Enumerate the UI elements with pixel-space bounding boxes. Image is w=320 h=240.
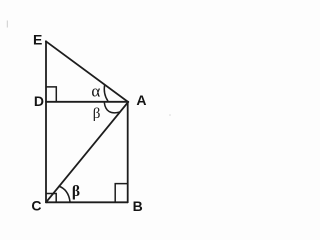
right-angle mark at C	[46, 194, 56, 203]
wire AB (right vertical)	[127, 102, 129, 202]
angle arc at C (beta)	[59, 186, 71, 202]
svg-text:D: D	[34, 93, 44, 109]
wire CB (bottom horizontal)	[46, 201, 128, 203]
svg-text:A: A	[136, 92, 146, 108]
wire EA (hypotenuse of top triangle)	[46, 41, 128, 102]
svg-text:β: β	[93, 106, 101, 122]
scan speck right	[169, 114, 171, 116]
scan speck top-left	[6, 21, 8, 28]
right-angle mark at D	[46, 87, 56, 102]
svg-text:E: E	[33, 32, 42, 48]
svg-text:B: B	[133, 198, 143, 214]
right-angle mark at B	[115, 184, 127, 202]
angle arc at A for beta (DA to CA)	[104, 103, 120, 113]
wire ED (left vertical, E to C)	[45, 41, 47, 202]
svg-text:α: α	[91, 82, 100, 101]
wire DA (horizontal)	[46, 101, 128, 103]
svg-text:β: β	[72, 183, 80, 200]
wire CA (diagonal)	[46, 102, 128, 202]
svg-text:C: C	[31, 198, 41, 214]
angle arc at A for alpha (EA to DA)	[104, 84, 108, 101]
